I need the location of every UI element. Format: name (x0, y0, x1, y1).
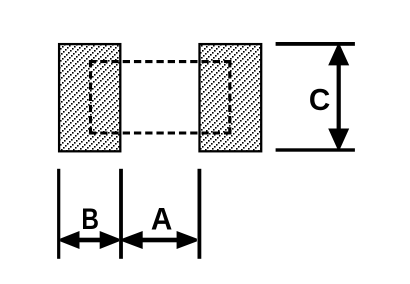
svg-text:B: B (81, 201, 99, 235)
outline left side (89, 60, 92, 135)
dimension C arrow (vertical double-headed) (328, 45, 349, 149)
pad P2 (right hatched pad) (200, 44, 262, 151)
extension tick 2 (right edge of left pad) (119, 169, 123, 259)
dimension C extension line (top) (276, 42, 355, 46)
svg-text:C: C (309, 84, 330, 117)
extension tick 3 (left edge of right pad) (198, 169, 202, 259)
pad P1 (left hatched pad) (59, 44, 120, 151)
outline right side (228, 60, 231, 135)
dimension A arrow (double-headed) (122, 231, 196, 249)
dimension B arrow (double-headed) (60, 231, 119, 249)
svg-text:A: A (151, 202, 172, 237)
dimension C extension line (bottom) (276, 148, 355, 151)
outline bottom side (89, 131, 231, 134)
extension tick 1 (left edge of left pad) (57, 169, 60, 259)
outline top side (89, 60, 231, 63)
component body outline (dashed) (89, 60, 231, 135)
